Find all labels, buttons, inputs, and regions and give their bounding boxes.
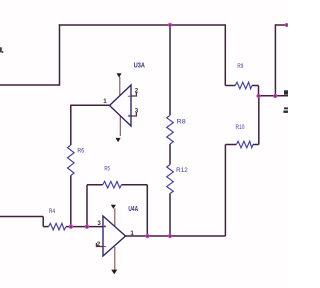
svg-text:R10: R10: [236, 124, 245, 131]
svg-text:R6: R6: [77, 148, 84, 155]
svg-text:3: 3: [135, 107, 139, 114]
svg-text:U4A: U4A: [128, 206, 138, 213]
svg-text:2: 2: [135, 87, 139, 94]
svg-text:1: 1: [130, 230, 134, 237]
svg-text:R9: R9: [237, 63, 243, 70]
svg-text:R8: R8: [177, 118, 187, 125]
svg-text:2: 2: [97, 241, 101, 248]
svg-text:1: 1: [103, 98, 107, 105]
svg-text:3: 3: [97, 220, 101, 227]
svg-text:R4: R4: [49, 208, 56, 215]
svg-text:U3A: U3A: [134, 62, 145, 69]
svg-text:R12: R12: [176, 167, 188, 174]
svg-text:R5: R5: [104, 165, 110, 172]
